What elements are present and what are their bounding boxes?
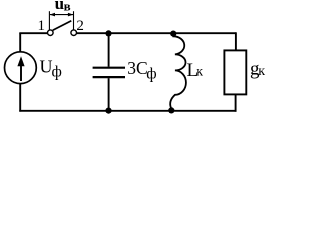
wire: top rail from switch terminal 2 to resistor stub corner [76,32,236,34]
wire: capacitor bottom stub [108,78,110,111]
capacitor 3C_ф bottom plate [93,76,125,78]
current source U_f circle [5,52,37,84]
current source arrow [20,65,22,82]
junction dot: top of inductor branch [170,30,176,36]
svg-text:к: к [258,64,265,79]
wire: left vertical top (source to top rail) [19,33,21,52]
wire: resistor top stub [235,32,237,50]
switch terminal circle 2 [71,30,77,36]
wire: left vertical bottom (source to bottom rail) [19,84,21,112]
svg-text:3C: 3C [127,58,147,78]
dimension extension tick right [73,11,75,29]
switch terminal circle 1 [48,30,54,36]
wire: capacitor top stub [108,33,110,66]
resistor g_к rectangle [224,50,246,94]
inductor L_к coil [170,34,186,108]
wire: resistor bottom stub [235,94,237,111]
junction dot: top of capacitor branch [105,30,111,36]
junction dot: bottom of capacitor branch [105,108,111,114]
junction dot: bottom of inductor branch [168,107,174,113]
dimension extension tick left [48,11,50,29]
switch blade [53,21,72,31]
svg-text:ф: ф [146,65,156,82]
wire: bottom rail [19,110,236,112]
svg-text:к: к [196,64,203,79]
svg-text:1: 1 [38,18,46,34]
wire: top rail left segment (corner to switch terminal 1) [19,32,47,34]
svg-text:в: в [64,0,71,14]
dimension double arrow u_в [50,14,73,16]
capacitor 3C_ф top plate [93,67,125,69]
svg-text:ф: ф [52,64,62,81]
svg-text:2: 2 [76,18,84,34]
